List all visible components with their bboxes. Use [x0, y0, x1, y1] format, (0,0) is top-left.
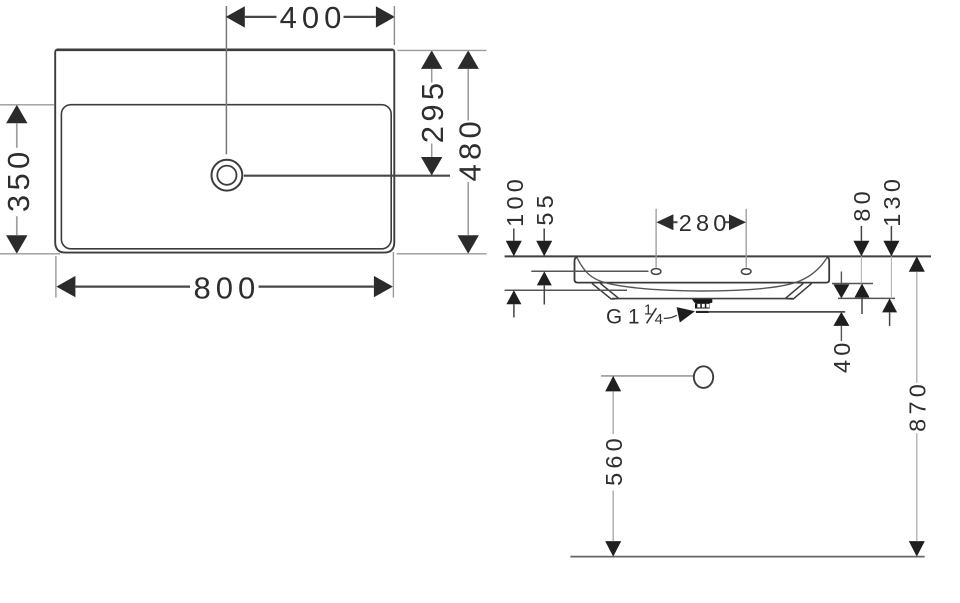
svg-text:800: 800	[194, 271, 261, 306]
svg-text:350: 350	[1, 147, 36, 212]
svg-text:G 1: G 1	[606, 305, 640, 328]
svg-text:870: 870	[905, 380, 931, 432]
svg-text:480: 480	[453, 117, 488, 182]
svg-text:400: 400	[280, 0, 347, 35]
svg-text:560: 560	[601, 434, 627, 486]
svg-text:40: 40	[829, 338, 855, 373]
svg-text:80: 80	[849, 187, 875, 222]
svg-text:130: 130	[879, 175, 905, 227]
svg-text:55: 55	[532, 191, 558, 226]
svg-text:280: 280	[679, 210, 731, 236]
svg-text:295: 295	[415, 79, 450, 144]
svg-text:100: 100	[502, 175, 528, 227]
svg-text:4: 4	[655, 311, 663, 328]
